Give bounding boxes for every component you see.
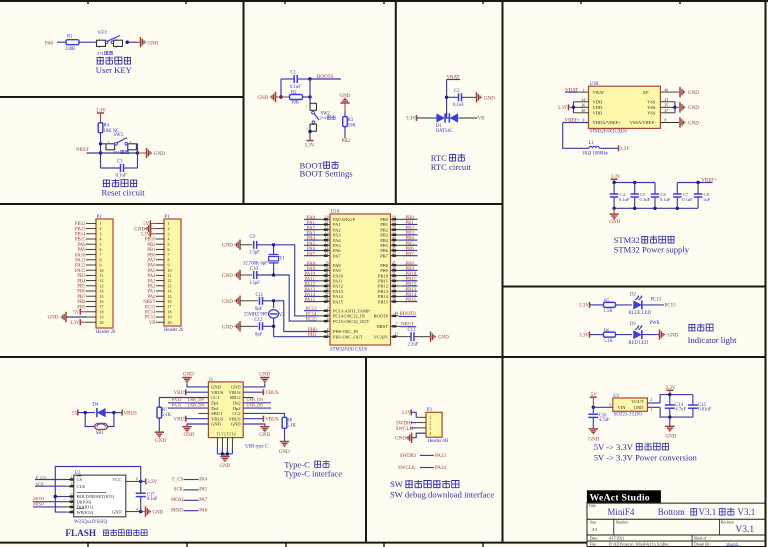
svg-text:PB2: PB2 — [342, 139, 351, 144]
wire — [57, 41, 66, 43]
svg-text:1: 1 — [583, 88, 585, 92]
svg-text:PA15: PA15 — [305, 298, 316, 303]
svg-text:PA13: PA13 — [435, 454, 446, 459]
svg-text:MOSI: MOSI — [171, 498, 183, 503]
svg-text:SW: SW — [390, 479, 404, 489]
logo WeAct Studio — [587, 490, 661, 503]
U1A pin BOOT0 44 — [374, 312, 417, 319]
svg-text:GND: GND — [211, 385, 221, 390]
J1 Dn2 Dp2 wires — [243, 397, 271, 408]
svg-text:PB7: PB7 — [380, 253, 389, 258]
wire — [126, 41, 138, 44]
svg-text:USB_DP: USB_DP — [246, 403, 263, 408]
capacitor C3 — [101, 160, 138, 179]
svg-text:GND: GND — [666, 434, 677, 439]
svg-text:U1B: U1B — [590, 82, 599, 87]
power 3.3V ldo out — [666, 386, 676, 397]
svg-text:PC15-OSC32_OUT: PC15-OSC32_OUT — [333, 319, 370, 324]
capacitor C10 — [249, 267, 275, 286]
svg-text:C11: C11 — [256, 293, 264, 298]
svg-text:USB_DN: USB_DN — [188, 403, 206, 408]
ic U1A STM32F4X1CXU6 — [330, 210, 391, 353]
svg-text:8: 8 — [665, 119, 667, 123]
svg-text:45: 45 — [392, 262, 396, 266]
svg-text:VSS: VSS — [647, 105, 656, 110]
svg-text:1.5K: 1.5K — [604, 309, 614, 314]
J1 CC1 wire and resistor R7 — [157, 398, 208, 433]
svg-text:T1: T1 — [217, 432, 221, 436]
resistor R5 — [604, 299, 616, 314]
solder bridge SB1 — [85, 413, 114, 437]
svg-text:10K: 10K — [348, 123, 357, 128]
svg-text:PH1: PH1 — [308, 333, 317, 338]
svg-text:GND: GND — [48, 316, 59, 321]
svg-text:STM32: STM32 — [614, 235, 640, 245]
svg-text:2.2uF: 2.2uF — [408, 342, 419, 347]
wire right branch — [137, 144, 139, 168]
svg-text:C2: C2 — [454, 89, 460, 94]
U2 VOUT pin 2 wire — [647, 395, 669, 403]
svg-text:34: 34 — [325, 288, 329, 292]
svg-text:PB15: PB15 — [378, 299, 389, 304]
svg-text:27: 27 — [392, 293, 396, 297]
svg-text:5: 5 — [327, 328, 329, 332]
net label NRST wire — [76, 148, 139, 155]
svg-text:VDD: VDD — [593, 111, 603, 116]
net label PA0 — [45, 42, 54, 47]
svg-text:USB_DP: USB_DP — [188, 397, 205, 402]
svg-text:SCK: SCK — [36, 481, 45, 486]
svg-text:C13: C13 — [408, 328, 416, 333]
svg-text:330R: 330R — [65, 47, 76, 52]
svg-text:VDD: VDD — [593, 105, 603, 110]
svg-text:5V -> 3.3V Power conversion: 5V -> 3.3V Power conversion — [594, 452, 698, 462]
title Indicator light — [688, 323, 738, 344]
svg-text:4.7uF: 4.7uF — [675, 408, 686, 413]
P1 net labels — [143, 238, 156, 326]
label 3*4 push button — [113, 150, 129, 155]
svg-text:18: 18 — [392, 216, 396, 220]
svg-text:VDD: VDD — [593, 100, 603, 105]
P3 3.3V pin1 — [401, 409, 416, 417]
svg-text:PC13: PC13 — [665, 304, 677, 309]
svg-text:PA7: PA7 — [333, 253, 341, 258]
U1A pin VCAP1 22 and capacitor C13 — [374, 328, 430, 348]
svg-text:7: 7 — [396, 322, 398, 326]
svg-text:PA7: PA7 — [307, 252, 316, 257]
crystal Y1 — [243, 243, 286, 275]
connector P3 header 4H — [416, 408, 449, 444]
wire — [309, 79, 311, 103]
svg-text:BOOT Settings: BOOT Settings — [300, 168, 354, 178]
svg-text:44: 44 — [395, 312, 399, 316]
svg-text:F_CS: F_CS — [172, 477, 183, 482]
svg-text:T4: T4 — [232, 432, 236, 436]
title STM32 Power supply — [614, 235, 690, 255]
P3 ground pin4 — [395, 433, 426, 443]
bottom rail — [612, 207, 698, 210]
svg-text:WeAct Studio: WeAct Studio — [590, 493, 650, 504]
svg-text:38: 38 — [325, 298, 329, 302]
svg-text:D3: D3 — [630, 322, 636, 327]
power 5V — [72, 410, 95, 417]
svg-text:30: 30 — [325, 267, 329, 271]
svg-text:FLASH: FLASH — [65, 528, 96, 538]
svg-text:STM32 Power supply: STM32 Power supply — [614, 245, 690, 255]
J1 left ground top — [182, 372, 208, 387]
svg-text:GND: GND — [183, 372, 194, 377]
svg-text:VREF+: VREF+ — [701, 179, 717, 184]
svg-text:SW debug download interface: SW debug download interface — [390, 489, 494, 499]
svg-text:C12: C12 — [255, 318, 263, 323]
connector P2 header 20 — [86, 215, 116, 335]
svg-text:2: 2 — [650, 398, 652, 402]
svg-text:Indicator light: Indicator light — [688, 335, 738, 345]
svg-text:5.1K: 5.1K — [604, 339, 614, 344]
svg-text:L1: L1 — [589, 141, 595, 146]
svg-text:3: 3 — [609, 403, 611, 407]
J1 left VBUS lower — [174, 416, 209, 423]
label 3*4 push button — [97, 51, 113, 56]
svg-text:SW3: SW3 — [114, 133, 124, 138]
svg-text:14: 14 — [325, 237, 329, 241]
svg-text:Revision: Revision — [721, 521, 735, 525]
svg-text:49: 49 — [665, 88, 669, 92]
svg-text:33: 33 — [325, 282, 329, 286]
title FLASH — [65, 528, 147, 538]
svg-text:VBUS: VBUS — [265, 417, 279, 422]
svg-text:4/17/2021: 4/17/2021 — [609, 537, 625, 541]
J1 right VBUS lower — [243, 416, 279, 423]
svg-text:GND: GND — [688, 106, 699, 111]
svg-text:SBU1: SBU1 — [211, 411, 222, 416]
wire OSC routes — [274, 301, 319, 337]
svg-text:CC2: CC2 — [232, 411, 240, 416]
svg-text:VBUS: VBUS — [211, 390, 224, 395]
svg-text:R2: R2 — [291, 90, 297, 95]
svg-text:MiniF4: MiniF4 — [607, 507, 635, 517]
svg-text:19: 19 — [392, 221, 396, 225]
svg-text:PA14: PA14 — [435, 466, 446, 471]
svg-text:Number: Number — [616, 521, 629, 525]
svg-text:R3: R3 — [348, 118, 354, 123]
svg-text:Bottom: Bottom — [658, 507, 685, 517]
svg-text:3*4: 3*4 — [97, 51, 104, 56]
svg-text:3*4: 3*4 — [320, 116, 327, 121]
U3 VCC pin wire — [126, 477, 158, 485]
svg-text:GND: GND — [219, 464, 230, 469]
wire — [79, 41, 99, 44]
LED D3 — [629, 322, 649, 346]
svg-text:15: 15 — [325, 242, 329, 246]
svg-text:PH1-OSC_OUT: PH1-OSC_OUT — [333, 334, 363, 339]
ground — [258, 92, 291, 102]
svg-text:3: 3 — [327, 312, 329, 316]
svg-text:47: 47 — [665, 109, 669, 113]
U1A pin NRST 7 — [376, 322, 416, 329]
capacitor C12 — [255, 318, 276, 338]
svg-text:36: 36 — [582, 104, 586, 108]
svg-text:GND: GND — [211, 422, 221, 427]
svg-text:A3: A3 — [592, 527, 597, 532]
capacitor C1 — [281, 71, 310, 90]
net label PC13 wire — [642, 298, 676, 309]
capacitor C7 — [673, 183, 693, 209]
svg-text:8pF: 8pF — [255, 333, 263, 338]
label PWR and ground — [642, 321, 679, 340]
capacitor C11 — [255, 293, 275, 312]
svg-text:46: 46 — [392, 267, 396, 271]
svg-text:1: 1 — [650, 408, 652, 412]
capacitor C2 — [447, 89, 465, 108]
svg-text:VBAT: VBAT — [565, 89, 578, 94]
svg-text:Type-C interface: Type-C interface — [284, 469, 342, 479]
svg-text:3.3V: 3.3V — [406, 117, 416, 122]
svg-text:3: 3 — [116, 37, 118, 41]
svg-text:USB_DN: USB_DN — [246, 397, 264, 402]
ground C10 — [222, 270, 252, 280]
title SW debug download interface — [390, 479, 494, 499]
svg-text:MISO: MISO — [171, 509, 184, 514]
J1 left ground bottom — [182, 424, 208, 438]
ground C12 — [222, 321, 258, 331]
svg-text:GND: GND — [259, 433, 270, 438]
svg-text:0.01uF: 0.01uF — [698, 408, 712, 413]
svg-text:VOUT: VOUT — [631, 399, 644, 404]
svg-text:9: 9 — [583, 119, 585, 123]
wire VREF+ down — [563, 123, 589, 149]
svg-text:3.3V: 3.3V — [305, 143, 315, 148]
U1B pin VBAT 1 — [565, 88, 605, 95]
svg-text:PC13: PC13 — [651, 298, 662, 303]
svg-text:CC1: CC1 — [211, 395, 219, 400]
svg-text:0.1uF: 0.1uF — [682, 197, 693, 202]
U1A pins PB8-PB15 — [378, 262, 403, 305]
resistor R4 — [98, 123, 119, 134]
svg-text:2: 2 — [327, 307, 329, 311]
svg-text:Header 20: Header 20 — [164, 328, 184, 333]
svg-text:GND: GND — [279, 450, 290, 455]
svg-text:Header 4H: Header 4H — [428, 439, 449, 444]
svg-text:C10: C10 — [250, 267, 258, 272]
svg-text:VIN: VIN — [618, 405, 627, 410]
svg-text:GND: GND — [231, 422, 241, 427]
title Reset circuit — [102, 179, 146, 197]
svg-text:3: 3 — [71, 509, 73, 513]
svg-text:32: 32 — [325, 277, 329, 281]
svg-text:5.1K: 5.1K — [162, 413, 172, 418]
svg-text:25: 25 — [392, 282, 396, 286]
svg-text:VBUS: VBUS — [124, 411, 138, 416]
U1A pins PA8-PA15 — [319, 262, 344, 305]
svg-text:SWCLK: SWCLK — [398, 466, 416, 471]
connector J1 USB type C — [208, 378, 267, 450]
U3 left wires F_CS SCK MOSI MISO — [33, 475, 66, 507]
svg-text:zhanzh: zhanzh — [726, 541, 739, 546]
svg-text:SB1: SB1 — [96, 431, 105, 436]
svg-text:1KΩ 100Mhz: 1KΩ 100Mhz — [582, 152, 608, 157]
svg-text:J1: J1 — [209, 378, 214, 383]
J1 right ground bottom — [243, 424, 270, 438]
title block date row — [590, 537, 707, 541]
power 3.3V — [599, 145, 630, 152]
wire OSC32 routes — [274, 245, 319, 321]
svg-text:VB: VB — [149, 321, 156, 326]
svg-text:PA7: PA7 — [199, 498, 208, 503]
svg-text:20: 20 — [168, 320, 172, 325]
svg-text:0.1uF: 0.1uF — [640, 197, 651, 202]
svg-text:6: 6 — [327, 333, 329, 337]
net label VBUS — [114, 410, 137, 417]
svg-text:GND: GND — [484, 96, 495, 101]
ground cap bank — [609, 208, 620, 225]
svg-text:Size: Size — [590, 521, 597, 525]
svg-text:28: 28 — [392, 298, 396, 302]
svg-text:3.3V: 3.3V — [401, 411, 411, 416]
switch SW1 KEY — [97, 30, 123, 49]
svg-text:R6: R6 — [604, 329, 610, 334]
svg-text:GND: GND — [259, 372, 270, 377]
svg-text:BAT54C: BAT54C — [436, 129, 453, 134]
title RTC circuit — [431, 153, 472, 172]
resistor R1 — [65, 35, 79, 52]
wire center — [446, 112, 448, 118]
U1A pins PC13 PC14 PC15 — [319, 307, 371, 324]
ground C13 — [431, 332, 450, 342]
svg-text:24: 24 — [582, 98, 586, 102]
power 3.3V cap bank — [611, 175, 621, 182]
J1 SBU1 stub — [198, 412, 208, 414]
svg-text:1: 1 — [99, 37, 101, 41]
switch SW3 — [101, 133, 138, 150]
ic U2 LDO — [613, 394, 648, 417]
J1 Dp1 Dn1 wires USB_DP USB_DN — [168, 397, 208, 408]
svg-text:35: 35 — [665, 104, 669, 108]
svg-text:0.1uF: 0.1uF — [290, 85, 301, 90]
U1A pins PA0-PA7 — [319, 216, 356, 259]
svg-text:37: 37 — [325, 293, 329, 297]
power 3.3V — [406, 115, 437, 122]
svg-text:GND: GND — [222, 274, 233, 279]
svg-text:8pF: 8pF — [255, 307, 263, 312]
svg-text:5V -> 3.3V: 5V -> 3.3V — [594, 442, 634, 452]
svg-text:VSS: VSS — [647, 100, 656, 105]
svg-text:Y1: Y1 — [279, 256, 285, 261]
ic U3 W25Q flash — [66, 471, 126, 525]
capacitor C4 — [610, 183, 630, 209]
svg-text:SCK: SCK — [174, 488, 184, 493]
power 3.3V — [558, 104, 574, 111]
title block frame — [587, 502, 766, 547]
J1 left VBUS — [174, 389, 209, 396]
capacitor C15 — [688, 403, 712, 412]
ground — [462, 92, 496, 102]
wire to VB — [459, 117, 486, 122]
svg-text:WP(IO2): WP(IO2) — [77, 510, 94, 515]
svg-text:10: 10 — [325, 216, 329, 220]
U1A net labels PA0-PA7 — [304, 216, 319, 257]
svg-text:Header 20: Header 20 — [96, 330, 116, 335]
svg-text:RTC circuit: RTC circuit — [431, 162, 472, 172]
U1A net labels PB8-PB15 — [403, 262, 418, 303]
U1B pin EP 49 — [643, 87, 699, 97]
power 3.3V row R6 — [579, 332, 603, 339]
svg-text:GND: GND — [112, 509, 122, 514]
ground C11 — [222, 296, 258, 306]
svg-text:VCAP1: VCAP1 — [374, 334, 388, 339]
svg-text:GND: GND — [222, 244, 233, 249]
svg-text:D2: D2 — [630, 292, 636, 297]
svg-text:PA5: PA5 — [199, 488, 208, 493]
svg-text:V3.1: V3.1 — [699, 507, 717, 517]
title BOOT Settings — [300, 160, 354, 178]
svg-text:GND: GND — [231, 385, 241, 390]
svg-text:GND: GND — [438, 336, 449, 341]
svg-text:PC15: PC15 — [306, 318, 317, 323]
svg-text:R5: R5 — [604, 299, 610, 304]
svg-text:Sheet of: Sheet of — [694, 537, 707, 541]
wire 3.3V rails — [668, 395, 693, 419]
svg-text:3.3V: 3.3V — [579, 304, 589, 309]
svg-text:GND: GND — [153, 511, 164, 516]
svg-text:7: 7 — [71, 493, 73, 497]
U1A net labels PC13 PC14 PC15 — [304, 307, 319, 322]
diode D1 BAT54C dual — [436, 113, 458, 134]
P1 5V power pin1 — [143, 220, 156, 227]
svg-text:Drawn By:: Drawn By: — [694, 542, 711, 546]
capacitor C9 — [249, 235, 274, 256]
ground R8 — [279, 442, 290, 456]
net label BOOT0 — [308, 75, 341, 81]
svg-text:GND: GND — [634, 405, 644, 410]
svg-text:10K: 10K — [291, 100, 300, 105]
power 3.3V — [96, 109, 106, 124]
svg-text:2: 2 — [71, 503, 73, 507]
svg-text:Dp1: Dp1 — [211, 401, 219, 406]
svg-text:17: 17 — [325, 252, 329, 256]
svg-text:PWR: PWR — [650, 321, 661, 326]
wire R6 to D3 — [616, 334, 633, 336]
U1A net labels PB0-PB7 — [403, 216, 418, 257]
svg-text:PB15: PB15 — [406, 298, 417, 303]
J1 shield pins to ground — [217, 438, 232, 470]
svg-text:NRST: NRST — [376, 324, 388, 329]
svg-text:PA11: PA11 — [172, 403, 181, 408]
J1 SBU2 stub — [243, 397, 253, 399]
ground — [134, 37, 159, 47]
svg-text:W25QxxJVSSIQ: W25QxxJVSSIQ — [74, 520, 107, 525]
svg-text:C1: C1 — [291, 71, 297, 76]
ground ldo — [665, 417, 677, 439]
U1A pins PH0 PH1 — [319, 328, 364, 340]
svg-text:GND: GND — [155, 439, 166, 444]
capacitor C14 — [665, 395, 687, 418]
svg-text:CS: CS — [77, 477, 83, 482]
title 5V to 3.3V conversion — [594, 442, 698, 463]
svg-text:Dp2: Dp2 — [233, 406, 241, 411]
svg-text:GND: GND — [154, 152, 165, 157]
svg-text:VBUS: VBUS — [211, 416, 224, 421]
title Type-C interface — [284, 459, 342, 478]
svg-text:GND: GND — [222, 300, 233, 305]
svg-text:3.3V: 3.3V — [620, 147, 630, 152]
svg-text:SOT23-3 LDO: SOT23-3 LDO — [614, 412, 643, 417]
J1 CC2 wire and resistor R8 — [243, 413, 296, 441]
svg-text:VBUS: VBUS — [265, 391, 279, 396]
diode D4 — [92, 403, 115, 418]
resistor R6 — [604, 329, 616, 344]
svg-text:U3: U3 — [75, 471, 81, 476]
